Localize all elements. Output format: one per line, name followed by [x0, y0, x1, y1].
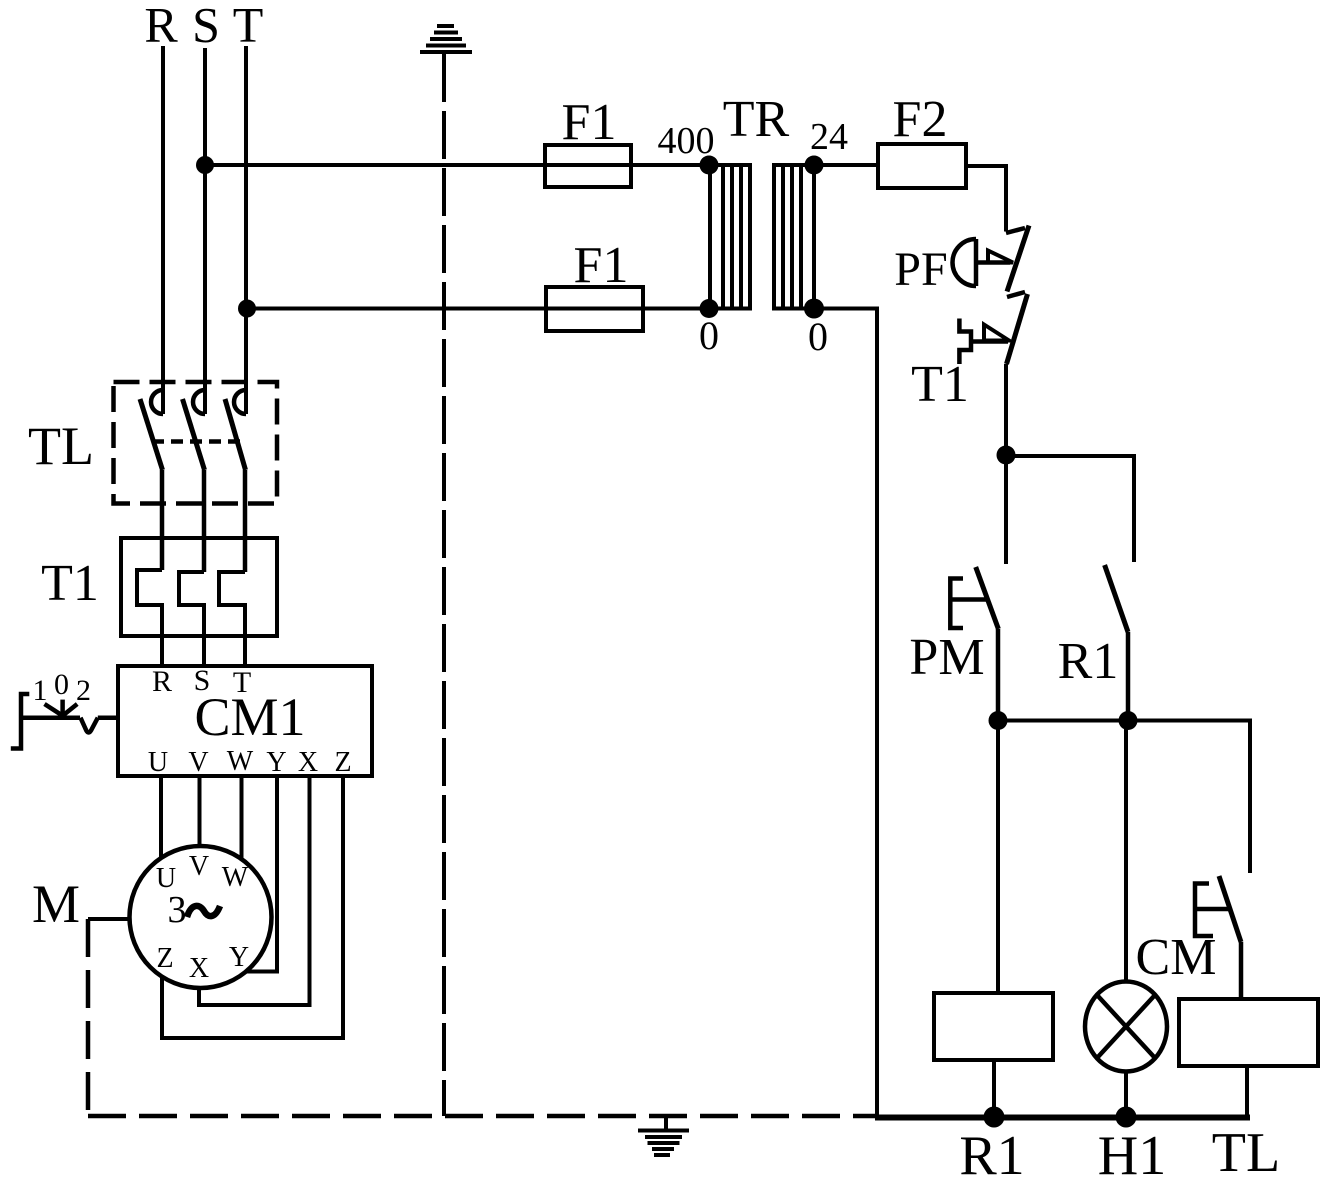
svg-text:F2: F2 [893, 91, 948, 148]
breaker TL pole S [183, 390, 206, 572]
overload T1 heater T [219, 572, 245, 666]
wire coil TL to bus [1245, 1066, 1249, 1117]
selector switch 1-0-2 [11, 694, 118, 749]
svg-text:2: 2 [76, 674, 91, 707]
svg-text:TR: TR [723, 91, 790, 148]
breaker TL pole R [140, 390, 163, 570]
wire F2 to PF [966, 166, 1006, 232]
wire node A down to PM [1004, 456, 1008, 564]
svg-text:3: 3 [168, 889, 187, 931]
fuse F1 (top) [545, 145, 631, 187]
enclosure M dashed left [86, 919, 91, 1116]
wire phase R vertical [161, 46, 165, 414]
pushbutton PM (NO) [950, 567, 998, 721]
svg-text:0: 0 [808, 314, 828, 359]
wire PE dashed vertical [442, 54, 446, 1116]
overload T1 box [121, 538, 277, 636]
wire L2: T node to transformer 0 [247, 307, 709, 311]
svg-text:PM: PM [909, 629, 984, 686]
overload T1 heater R [137, 570, 162, 666]
wire CM1 U to motor [159, 776, 163, 858]
node B junction [989, 711, 1008, 730]
svg-text:400: 400 [658, 120, 715, 162]
breaker TL dashed box [114, 382, 278, 504]
coil R1 [934, 993, 1053, 1060]
motor label ~ [187, 906, 220, 917]
svg-text:V: V [189, 851, 209, 882]
contact CM (NO) [1195, 876, 1241, 999]
wire node B to CM contact [998, 721, 1250, 874]
junction 24 [805, 156, 824, 175]
wire coil R1 to bus [992, 1060, 996, 1117]
node C junction [1119, 711, 1138, 730]
wire lamp H1 to bus [1124, 1072, 1128, 1118]
contact R1 (NO) [1105, 565, 1128, 721]
svg-text:T: T [233, 666, 251, 699]
svg-text:X: X [298, 747, 318, 778]
wire node A branch right [1006, 456, 1134, 562]
svg-text:TL: TL [1212, 1122, 1280, 1181]
svg-text:R: R [152, 665, 172, 698]
fuse F1 (bottom) [546, 287, 643, 331]
wire T1 to node A [1004, 364, 1008, 456]
svg-text:X: X [189, 953, 209, 984]
wire phase T vertical [244, 46, 248, 414]
junction 400 [700, 156, 719, 175]
enclosure M dashed bottom [88, 1114, 877, 1119]
svg-text:F1: F1 [562, 94, 617, 151]
svg-text:1: 1 [33, 674, 48, 707]
svg-text:R1: R1 [959, 1125, 1024, 1181]
junction H1 on bus [1116, 1107, 1137, 1128]
overload T1 heater S [179, 572, 204, 666]
wire node B to coil R1 [996, 721, 1000, 994]
svg-text:Y: Y [266, 747, 286, 778]
bottom bus 0V [875, 1115, 1250, 1121]
wire CM1 Y to motor [246, 776, 277, 972]
ground (top PE) [420, 26, 472, 52]
svg-text:R: R [144, 0, 178, 53]
breaker TL pole T [225, 390, 246, 572]
svg-text:T1: T1 [911, 356, 969, 413]
transformer TR primary winding [710, 165, 750, 309]
junction on T line [238, 300, 256, 318]
svg-text:S: S [194, 664, 211, 697]
svg-text:R1: R1 [1058, 633, 1119, 690]
ground (bottom) [638, 1116, 689, 1155]
wire secondary 0 down right side [814, 309, 877, 1118]
svg-text:Z: Z [156, 943, 173, 974]
wire phase S vertical [203, 48, 207, 414]
wire node C to lamp H1 [1124, 721, 1128, 983]
wire L1: S node to transformer 400 [205, 163, 709, 167]
svg-text:T: T [233, 0, 264, 53]
node A junction [997, 446, 1016, 465]
svg-text:PF: PF [894, 243, 947, 296]
junction 0 primary [700, 299, 719, 318]
svg-text:CM: CM [1136, 929, 1217, 986]
svg-text:Z: Z [334, 747, 351, 778]
svg-text:0: 0 [699, 313, 719, 358]
breaker TL trip link dashed [152, 439, 240, 444]
svg-text:TL: TL [28, 416, 94, 476]
wire 24 to F2 [814, 163, 878, 167]
junction on S line [196, 156, 214, 174]
svg-text:T1: T1 [41, 555, 99, 612]
svg-text:F1: F1 [574, 237, 629, 294]
svg-text:W: W [227, 746, 254, 777]
wire M frame stub [88, 917, 130, 921]
svg-text:U: U [148, 747, 168, 778]
svg-text:0: 0 [54, 668, 69, 701]
wire CM1 Z to motor [162, 776, 343, 1038]
svg-text:H1: H1 [1098, 1125, 1166, 1181]
contact T1 (NC thermal trip) [959, 292, 1027, 364]
fuse F2 [878, 144, 966, 188]
junction R1 on bus [984, 1107, 1005, 1128]
contactor CM1 box [118, 666, 372, 776]
svg-text:W: W [222, 862, 249, 893]
svg-text:M: M [32, 874, 80, 934]
pushbutton PF (NC mushroom) [953, 226, 1030, 292]
svg-text:Y: Y [229, 942, 249, 973]
junction 0 secondary [804, 299, 824, 319]
svg-text:24: 24 [810, 116, 848, 158]
wire CM1 X to motor [199, 776, 310, 1005]
wire CM1 W to motor [240, 776, 244, 859]
coil TL [1179, 999, 1318, 1066]
lamp H1 [1085, 982, 1167, 1072]
svg-text:S: S [192, 0, 220, 53]
motor M circle [130, 846, 272, 988]
wire CM1 V to motor [198, 776, 202, 846]
svg-text:V: V [188, 747, 208, 778]
transformer TR secondary winding [774, 165, 814, 309]
